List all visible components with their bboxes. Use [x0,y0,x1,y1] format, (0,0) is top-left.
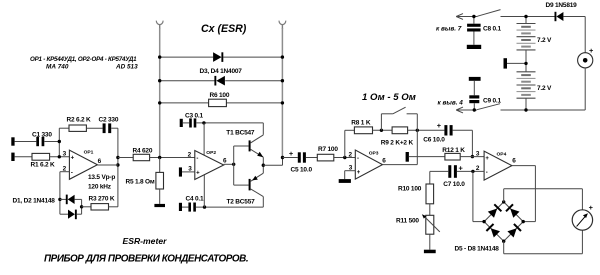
terminal hook left [156,21,163,29]
switch SA2 blade [477,104,500,110]
wire emitters node [262,156,285,173]
svg-text:-: - [486,170,488,176]
ground C1 [11,137,14,145]
resistor R7 [317,154,355,161]
svg-text:7.2 V: 7.2 V [537,85,552,92]
wire diode right vertical [80,199,83,214]
svg-text:T2 BC557: T2 BC557 [227,199,256,206]
wire left Cx rail [159,28,161,158]
svg-text:OP4: OP4 [497,151,507,157]
svg-text:+: + [485,156,489,162]
label R11 [396,218,419,225]
label C1 [32,132,52,139]
label C8 [483,25,502,32]
wire D4 row [160,80,283,82]
diode D2 [60,210,82,220]
wire OP2 pin4 supply [203,175,205,207]
op-amp OP3 [349,150,387,179]
label R5 [126,178,155,185]
svg-text:+: + [589,46,594,55]
svg-text:3: 3 [476,150,480,157]
svg-text:6: 6 [223,158,227,165]
ground OP2 pin3 [179,167,195,176]
diode D1 [60,195,82,205]
resistor R1 [15,153,70,160]
svg-text:D1, D2 1N4148: D1, D2 1N4148 [13,198,56,205]
label к выв. 7 [436,26,462,33]
ground C9 [469,77,481,81]
label D3 D4 [200,68,243,75]
svg-text:120 kHz: 120 kHz [88,183,112,190]
ground R11 [424,250,436,254]
ground OP3 pin3 [339,171,356,183]
capacitor C4 [182,203,196,212]
wire right Cx rail [281,28,283,158]
svg-text:R4 620: R4 620 [133,147,153,154]
diode D4 [214,76,225,86]
resistor R2 [59,125,102,131]
svg-text:R10 100: R10 100 [398,185,422,192]
svg-text:C7 10.0: C7 10.0 [443,181,465,188]
svg-text:ПРИБОР ДЛЯ ПРОВЕРКИ КОНДЕНСАТО: ПРИБОР ДЛЯ ПРОВЕРКИ КОНДЕНСАТОРОВ. [44,253,248,264]
meter PA1 [572,203,593,230]
wire OP3 output [383,130,418,164]
svg-text:ESR-meter: ESR-meter [123,236,168,246]
label R3 [89,195,115,202]
svg-text:6: 6 [382,157,386,164]
svg-text:6: 6 [98,158,102,165]
wire OP1 output vertical [116,128,119,207]
capacitor C2 [103,123,118,133]
label R12 [442,147,465,154]
wire OP4 output to bridge right [512,166,536,222]
svg-text:R7 100: R7 100 [318,146,338,153]
ground C4 [179,203,182,211]
label R2 [67,116,92,123]
svg-text:R1 6.2 K: R1 6.2 K [31,161,56,168]
ground R1 [11,153,14,161]
svg-text:1 Ом - 5 Ом: 1 Ом - 5 Ом [362,92,416,103]
svg-text:МА 740: МА 740 [46,64,69,71]
resistor R3 [82,204,118,210]
label D9 [546,2,578,9]
resistor R5 [156,158,164,204]
svg-text:-: - [196,156,198,162]
label R9 [381,140,414,147]
resistor R6 [160,99,283,106]
label C9 [483,97,502,104]
capacitor C9 [469,81,479,110]
diode D9 [555,12,564,21]
op-amp OP2 [188,150,227,180]
charging jack X1 [578,46,594,68]
svg-text:D9 1N5819: D9 1N5819 [546,2,578,9]
svg-text:к выв. 4: к выв. 4 [438,100,464,107]
svg-text:+: + [357,170,361,176]
wire bridge bottom to meter [504,230,583,254]
capacitor C5 [283,149,318,163]
svg-text:C8 0.1: C8 0.1 [483,25,502,32]
wire OP4 feedback to bridge left [473,171,484,221]
svg-text:+: + [196,171,200,177]
label D1 D2 [13,198,56,205]
svg-text:R6 100: R6 100 [210,92,230,99]
op-amp OP1 [63,150,102,180]
svg-text:-: - [357,156,359,162]
resistor R12 [409,153,484,160]
wire pin2 to diodes [58,172,69,215]
svg-text:+: + [71,156,75,162]
wire OP1 output [97,164,118,166]
ground R5 [154,204,165,207]
diode D6 [506,204,520,218]
label T2 [227,199,256,206]
op-amp OP4 [476,150,516,180]
resistor R10 [426,171,434,215]
svg-text:+: + [437,121,442,130]
label R8 [351,120,371,127]
label D5-D8 [455,246,500,253]
svg-text:2: 2 [188,151,192,158]
svg-text:R3 270 K: R3 270 K [89,195,115,202]
svg-text:D3, D4 1N4007: D3, D4 1N4007 [200,68,243,75]
capacitor C7 [430,164,484,178]
arrow to pin 4 [456,107,463,113]
wire OP2 output to bases [224,146,236,185]
svg-text:OP2: OP2 [206,150,216,156]
wire bottom power row [457,68,585,110]
wire -V rail to T2 collector [196,197,263,209]
capacitor C6 [437,121,473,136]
svg-text:R9 2 K+2 K: R9 2 K+2 K [381,140,414,147]
junction dots Cx rails [158,55,284,104]
label 7.2 V upper [537,37,552,44]
switch SA1 blade [478,10,501,17]
terminal hook right [279,21,286,29]
svg-text:к выв. 7: к выв. 7 [436,26,462,33]
label C2 [99,116,119,123]
diode D5 [488,204,502,218]
svg-text:C6 10.0: C6 10.0 [423,136,445,143]
wire C6 to pin3 [471,130,474,158]
wire top power row [457,17,585,53]
resistor R9 [392,127,444,134]
svg-text:C2 330: C2 330 [99,116,119,123]
resistor R8 [345,127,392,158]
svg-text:3: 3 [63,151,67,158]
diode D3 [213,52,223,62]
label T1 [226,129,255,136]
wire D3 row [160,56,283,58]
label C5 [291,167,313,174]
label ESR-meter [123,236,168,246]
diode D8 [507,224,521,238]
junction dots power [472,15,528,112]
svg-text:T1 BC547: T1 BC547 [226,129,255,136]
label 1 Ом - 5 Ом [362,92,416,103]
svg-text:R11 500: R11 500 [396,218,419,225]
label к выв. 4 [438,100,464,107]
label Cx (ESR) [201,23,247,35]
ground C8 [467,45,481,49]
capacitor C1 [15,137,60,146]
svg-text:OP3: OP3 [369,151,379,157]
svg-text:-: - [71,170,73,176]
svg-text:Cx (ESR): Cx (ESR) [201,23,247,35]
label C6 [423,136,445,143]
svg-text:D5 - D8 1N4148: D5 - D8 1N4148 [455,246,500,253]
transistor T1 [234,135,264,157]
capacitor C8 [467,17,481,45]
svg-text:R5 1.8 Ом: R5 1.8 Ом [126,178,155,185]
label 7.2 V lower [537,85,552,92]
variable resistor R11 [422,214,440,250]
label C3 [185,113,204,120]
diode bridge frame D5-D8 [482,200,525,243]
label title [44,253,248,264]
label R7 [318,146,338,153]
label R10 [398,185,422,192]
svg-text:R8 1 K: R8 1 K [351,120,371,127]
diode D7 [486,224,500,238]
battery GB1 7.2V [517,17,536,64]
ground C3 [180,119,183,127]
label C4 [186,196,205,203]
svg-text:2: 2 [349,151,353,158]
svg-text:C9 0.1: C9 0.1 [483,97,502,104]
ground R12 [406,152,409,162]
label 13.5 Vp-p 120 kHz [88,174,115,191]
svg-text:7.2 V: 7.2 V [537,37,552,44]
svg-text:+: + [289,149,294,158]
svg-text:+: + [589,203,594,212]
wire pin3 vertical [58,128,61,158]
svg-text:ОР1 - КР544УД1, ОР2-ОР4 - КР57: ОР1 - КР544УД1, ОР2-ОР4 - КР574УД1 [30,56,137,63]
label C7 [443,181,465,188]
ground battery midpoint [504,58,527,68]
svg-text:OP1: OP1 [84,150,94,156]
svg-text:AD 513: AD 513 [115,64,138,71]
transistor T2 [234,173,264,196]
svg-text:R2 6.2 K: R2 6.2 K [67,116,92,123]
battery GB2 7.2V [517,63,536,110]
note: op-amp types [30,56,138,71]
arrow to pin 7 [456,14,463,20]
svg-text:C4 0.1: C4 0.1 [186,196,205,203]
capacitor C3 [183,118,197,127]
resistor R4 [118,154,195,160]
label R6 [210,92,230,99]
label R1 [31,161,56,168]
svg-text:6: 6 [512,158,516,165]
switch over R9 [381,107,417,130]
svg-text:C5 10.0: C5 10.0 [291,167,313,174]
wire OP2 pin7 supply [203,123,205,155]
wire +V rail to T1 collector [196,121,263,135]
svg-text:13.5 Vp-p: 13.5 Vp-p [88,174,115,181]
label R4 [133,147,153,154]
wire bridge top to meter [504,189,583,210]
